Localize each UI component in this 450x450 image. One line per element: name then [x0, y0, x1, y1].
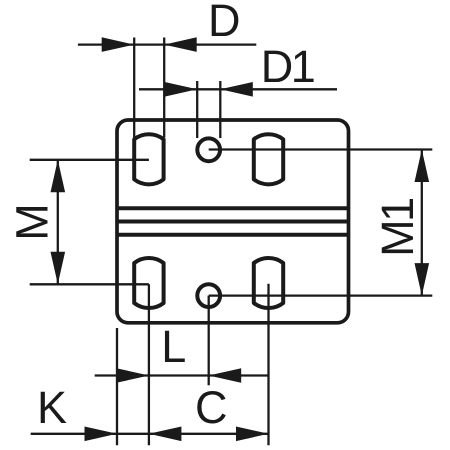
svg-text:K: K — [37, 382, 67, 433]
svg-text:M1: M1 — [372, 199, 423, 257]
svg-text:M: M — [7, 203, 58, 241]
svg-text:D1: D1 — [261, 41, 314, 92]
svg-text:L: L — [161, 321, 186, 372]
svg-text:C: C — [195, 382, 228, 433]
svg-text:D: D — [208, 0, 241, 46]
